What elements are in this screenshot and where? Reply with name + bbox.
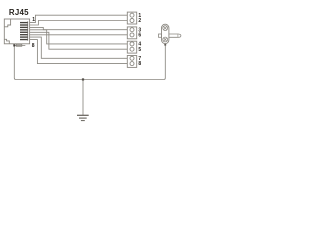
jack cavity notch bottom-left — [4, 39, 9, 44]
plug left flange — [159, 34, 162, 37]
pin 4 bar — [20, 29, 28, 31]
terminal block pair 4-5 box — [127, 41, 136, 53]
wire 1 : pin1 to terminal 1 — [30, 15, 128, 22]
ground junction dot — [82, 78, 84, 80]
terminal 8 screw — [130, 62, 134, 66]
terminal 5 screw — [130, 47, 134, 51]
svg-text:8: 8 — [138, 61, 141, 67]
pin header inner line — [27, 21, 29, 40]
pin 6 bar — [20, 34, 28, 36]
terminal 4 screw — [130, 42, 134, 46]
pin 3 bar — [20, 26, 28, 28]
pin 5 bar — [20, 31, 28, 33]
terminal block pair 3-6 box — [127, 27, 136, 39]
ground symbol bar 1 — [77, 114, 89, 116]
ground stem wire — [82, 80, 84, 116]
plug screw terminal A — [163, 26, 168, 31]
plug bottom pin nub — [164, 44, 166, 46]
connector J1 RJ45 jack body — [4, 19, 29, 44]
pin 2 bar — [20, 24, 28, 26]
shield stub wire — [14, 44, 25, 46]
ground symbol bar 3 — [81, 120, 85, 122]
wire 5 : pin5 to terminal 5 — [30, 32, 128, 49]
pin 1 bar — [20, 22, 28, 24]
terminal 6 screw — [130, 33, 134, 37]
terminal block pair 7-8 box — [127, 56, 136, 68]
plug screw terminal A cross — [164, 27, 167, 30]
pin 7 bar — [20, 36, 28, 38]
wire 6 : pin6 to terminal 6 — [30, 34, 128, 36]
svg-text:8: 8 — [32, 43, 35, 49]
ground bus wire (shield to plug sleeve) — [14, 45, 165, 80]
shield pad — [16, 44, 21, 46]
plug screw terminal B cross — [164, 38, 167, 41]
ground symbol bar 2 — [79, 117, 87, 119]
plug blade tip line — [177, 34, 179, 37]
shield junction dot — [13, 44, 15, 46]
terminal 2 screw — [130, 19, 134, 23]
terminal 7 screw — [130, 56, 134, 60]
wire 3 : pin3 to terminal 3 — [30, 27, 128, 29]
svg-text:6: 6 — [138, 32, 141, 38]
terminal 3 screw — [130, 28, 134, 32]
svg-text:5: 5 — [138, 47, 141, 53]
plug P1 body (stadium) — [162, 24, 169, 43]
wire 2 : pin2 to terminal 2 — [30, 21, 128, 26]
svg-text:1: 1 — [32, 17, 35, 23]
wire 8 : pin8 to terminal 8 — [30, 40, 128, 64]
wire 7 : pin7 to terminal 7 — [30, 37, 128, 58]
pin 8 bar — [20, 39, 28, 41]
plug right blade — [169, 34, 181, 37]
terminal block pair 1-2 box — [127, 12, 136, 24]
svg-text:2: 2 — [138, 18, 141, 24]
terminal 1 screw — [130, 13, 134, 17]
wire 4 : pin4 to terminal 4 — [30, 30, 128, 44]
svg-text:RJ45: RJ45 — [9, 8, 29, 17]
plug screw terminal B — [163, 37, 168, 42]
jack cavity notch top-left — [4, 19, 10, 27]
